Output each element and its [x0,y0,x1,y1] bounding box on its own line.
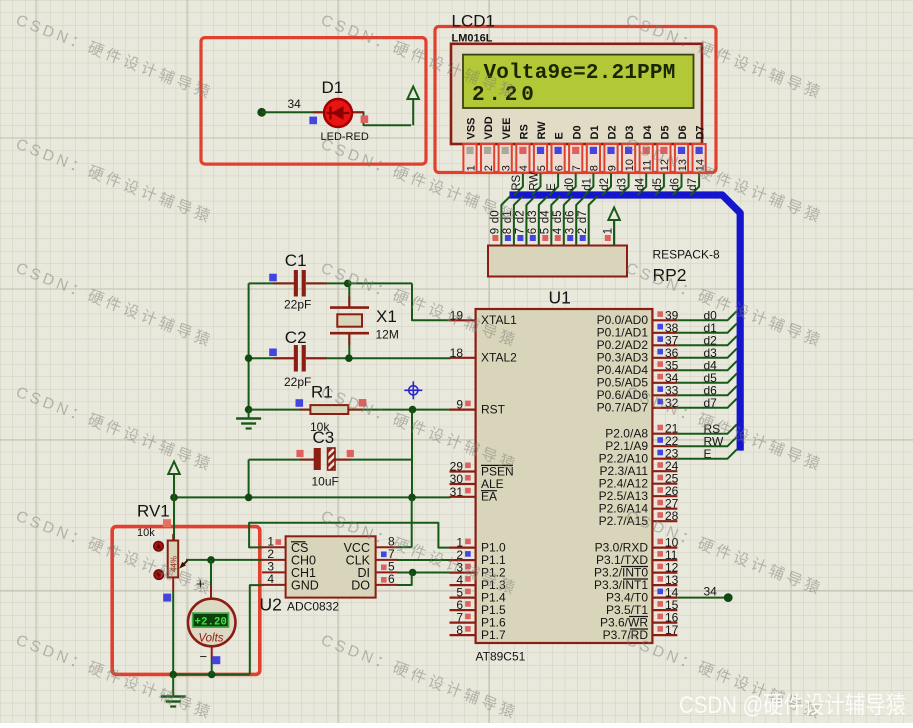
LCD data/control wires to bus [514,173,523,196]
svg-text:DO: DO [351,578,370,592]
wire from LED cathode to power [351,112,411,125]
svg-text:E: E [546,183,558,191]
svg-text:P1.7: P1.7 [481,628,506,642]
svg-text:+2.20: +2.20 [194,616,226,628]
svg-text:E: E [704,447,712,461]
node VCC rail / ADC VCC [408,494,416,502]
wire C3 left [249,459,314,461]
node C2 left [245,354,253,362]
wire voltmeter minus [211,647,213,660]
svg-text:D4: D4 [642,125,654,140]
svg-text:LM016L: LM016L [452,33,493,45]
svg-text:5: 5 [536,165,548,171]
node voltmeter minus [208,671,216,679]
svg-text:EA: EA [481,490,497,504]
svg-text:−: − [200,649,208,664]
svg-text:9: 9 [456,398,463,412]
RP2 pin 6 wire [539,196,548,245]
IC U1 AT89C51 [450,319,476,321]
svg-text:d6: d6 [564,210,576,223]
wire DI to P1.2 [397,572,451,574]
svg-text:31: 31 [450,485,464,499]
svg-text:d6: d6 [670,178,682,191]
svg-text:7: 7 [515,228,527,234]
node VCC rail / C3 [245,494,253,502]
svg-text:d3: d3 [617,178,629,191]
svg-text:17: 17 [665,623,679,637]
wire XTAL1 drop [412,283,451,320]
svg-text:Volts: Volts [198,633,223,645]
svg-text:7: 7 [571,165,583,171]
svg-text:12M: 12M [376,328,399,342]
svg-text:d2: d2 [515,210,527,223]
svg-text:9: 9 [490,228,502,234]
svg-text:4: 4 [518,165,530,171]
svg-text:C1: C1 [285,251,307,270]
node DI/DO [409,569,417,577]
svg-text:9: 9 [606,165,618,171]
svg-text:X1: X1 [376,307,397,326]
ground (bottom rail) [172,675,174,697]
wire to LED anode [262,111,325,113]
RV1 up button [154,541,164,551]
VCC rail to EA [174,496,451,498]
C2 pin stubs [274,357,295,359]
svg-text:U2: U2 [260,595,282,615]
voltmeter (Volts) [188,599,236,647]
bottom ground rail [173,674,250,676]
svg-text:22pF: 22pF [284,375,311,389]
svg-text:1: 1 [603,228,615,234]
svg-text:Volta9e=2.21PPM: Volta9e=2.21PPM [484,62,676,85]
wires P0.0-P0.7 and P2.0-P2.2 to bus [677,311,737,320]
svg-text:RW: RW [529,172,541,191]
C1 pin stubs [274,282,295,284]
RP2 pin 2 wire [589,196,598,245]
svg-text:D2: D2 [607,125,619,139]
svg-text:d4: d4 [634,177,646,190]
origin marker (blue crosshair) [404,381,422,399]
svg-text:D6: D6 [677,125,689,139]
svg-text:CSDN @硬件设计辅导猿: CSDN @硬件设计辅导猿 [679,692,906,719]
svg-text:RESPACK-8: RESPACK-8 [653,248,720,262]
wire C2 row to XTAL2 [249,357,294,359]
D1 pin stubs [313,111,325,113]
svg-text:2: 2 [577,228,589,234]
wire C3 right [335,459,412,461]
svg-text:d3: d3 [527,210,539,223]
RP2 pin 5 wire [551,196,560,245]
C3 pin stubs [300,459,314,461]
wire X1 top [348,283,350,306]
svg-text:d7: d7 [577,210,589,223]
wire X1 bottom [348,335,350,359]
wire RV1 top [173,497,175,541]
svg-text:D1: D1 [589,125,601,139]
svg-text:RV1: RV1 [137,502,170,521]
svg-text:5: 5 [540,228,552,234]
svg-text:28: 28 [665,509,679,523]
wire DO loop [397,573,412,586]
svg-text:3: 3 [564,228,576,234]
node wiper/voltmeter [207,556,215,564]
svg-text:GND: GND [291,578,319,592]
wire VCC to rail [411,497,413,547]
svg-text:6: 6 [553,165,565,171]
svg-text:10: 10 [624,159,636,171]
svg-text:d7: d7 [704,396,718,410]
svg-text:d1: d1 [582,178,594,191]
node 34 (right) [724,593,733,602]
svg-text:4: 4 [552,227,564,234]
node RV1 bottom [169,671,177,679]
svg-text:D0: D0 [571,125,583,139]
svg-text:d5: d5 [652,178,664,191]
X1 pin stubs [348,296,350,308]
node C2/X1 [345,354,353,362]
RP2 pin 7 wire [526,196,535,245]
wire voltmeter plus [210,560,212,586]
annotation box around LCD1 [435,27,716,173]
svg-text:ADC0832: ADC0832 [287,600,339,614]
wire CS to P1.0 [249,523,450,548]
svg-text:d0: d0 [564,178,576,191]
node VCC rail / RV1 [170,494,178,502]
svg-text:VEE: VEE [501,117,513,139]
svg-text:d4: d4 [540,210,552,223]
resistor R1 [310,405,348,414]
vertical C3 left to VCC rail [248,460,250,498]
svg-text:8: 8 [456,623,463,637]
left vertical rail (C1-C2-R1) [248,283,250,410]
IC U2 ADC0832 [262,546,286,548]
svg-text:4: 4 [267,572,274,586]
svg-text:8: 8 [502,228,514,234]
vertical RST to C3 to VCC rail [411,410,413,498]
node 34 (left junction) [257,108,266,117]
svg-text:6: 6 [527,228,539,234]
RP2 pin 4 wire [564,196,573,245]
LED D1 [324,99,352,127]
svg-text:10uF: 10uF [312,475,339,489]
svg-text:d5: d5 [552,210,564,223]
RV1 down button [154,570,164,580]
RP2 pin 9 wire [501,196,510,245]
node R1 left / ground [245,406,253,414]
wire GND to ground rail [250,585,263,674]
RP2 pin 8 wire [514,196,523,245]
svg-text:VSS: VSS [466,117,478,139]
svg-text:U1: U1 [549,288,571,308]
svg-text:18: 18 [450,346,464,360]
capacitor C2 [294,345,298,372]
RP2 pin 1 with power symbol [613,219,615,246]
wire wiper to CH0 [186,559,263,561]
ground (reset divider) [248,410,250,419]
capacitor C3 (polarized) [314,448,321,470]
svg-text:RS: RS [519,124,531,139]
power symbol above RV1 [173,472,175,497]
RP2 pin 3 wire [576,196,585,245]
svg-text:34: 34 [288,97,302,111]
svg-text:LCD1: LCD1 [452,12,495,31]
wire C1 left [249,282,294,284]
wire C1 right to XTAL1 [306,282,412,284]
wire R1 row (RST) [249,409,311,411]
capacitor C1 [294,270,298,297]
svg-text:VDD: VDD [483,116,495,139]
svg-text:8: 8 [589,165,601,171]
svg-text:XTAL2: XTAL2 [481,351,517,365]
wire net 34 from P3.4 [677,597,728,599]
svg-text:RW: RW [536,121,548,140]
power symbol (LED branch) [412,97,414,125]
svg-text:AT89C51: AT89C51 [476,650,526,664]
crystal X1 [330,306,369,309]
svg-text:D5: D5 [660,125,672,139]
svg-text:22pF: 22pF [284,298,311,312]
svg-text:6: 6 [388,572,395,586]
svg-text:D1: D1 [322,78,344,97]
svg-text:10k: 10k [137,527,155,539]
wire RV1 bottom [172,591,174,676]
node RST [409,406,417,414]
annotation box around RV1 and voltmeter [112,527,260,675]
svg-text:3: 3 [501,165,513,171]
svg-text:C2: C2 [285,328,307,347]
svg-text:1: 1 [465,165,477,171]
wire CLK to P1.1 [397,559,451,561]
data bus (blue) [510,195,741,451]
node C1/X1 [344,280,352,288]
svg-text:C3: C3 [313,428,335,447]
svg-text:RST: RST [481,402,506,416]
potentiometer RV1 [172,534,174,541]
svg-text:E: E [554,132,566,139]
annotation box around D1 LED [201,38,426,165]
svg-text:34: 34 [704,585,718,599]
svg-text:2: 2 [483,165,495,171]
svg-text:D7: D7 [695,125,707,139]
svg-text:d2: d2 [599,178,611,191]
svg-text:RS: RS [511,174,523,190]
R1 pin stubs [299,409,310,411]
